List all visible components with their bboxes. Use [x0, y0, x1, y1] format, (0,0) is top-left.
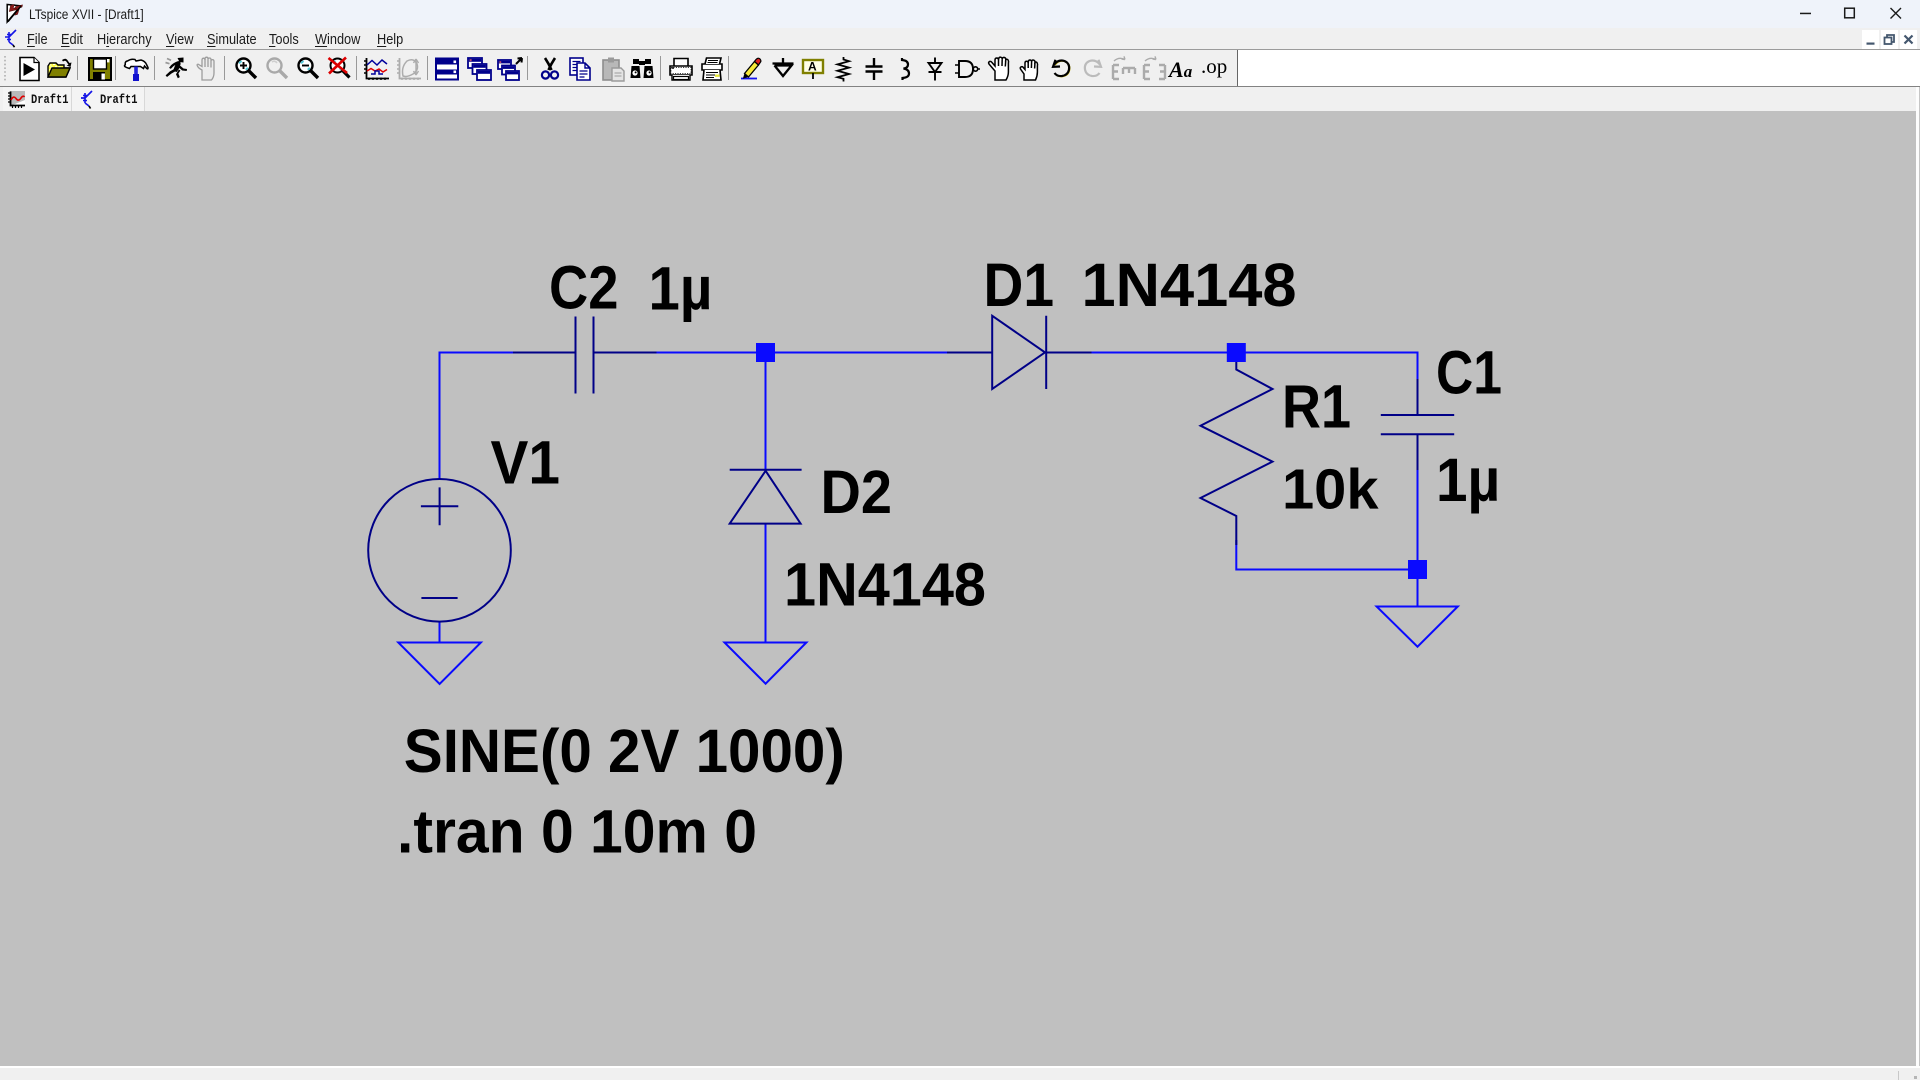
svg-text:10k: 10k [1282, 457, 1379, 521]
spice directive .tran 0 10m 0 [397, 798, 757, 866]
title bar [0, 0, 1920, 28]
LTspice app logo [5, 2, 27, 24]
svg-text:D2: D2 [821, 458, 893, 526]
svg-text:D1: D1 [984, 251, 1055, 319]
svg-text:A: A [808, 60, 817, 74]
label C2 [549, 254, 619, 322]
value 1µ (C2) [649, 255, 713, 323]
svg-text:SINE(0 2V 1000): SINE(0 2V 1000) [404, 717, 845, 785]
svg-text:1N4148: 1N4148 [784, 550, 986, 618]
toolbar [0, 50, 1238, 86]
value 1N4148 (D1) [1082, 251, 1297, 319]
wire junction A to D1 anode [766, 352, 993, 354]
label C1 [1436, 338, 1502, 406]
svg-text:1N4148: 1N4148 [1082, 251, 1297, 319]
label R1 [1282, 373, 1351, 441]
svg-text:1µ: 1µ [649, 255, 713, 323]
value 1µ (C1) [1436, 446, 1500, 514]
wire D1 cathode to junction B to C1 corner [1046, 353, 1418, 416]
value SINE(0 2V 1000) (V1) [404, 717, 845, 785]
window close button [1885, 0, 1906, 28]
window maximize button [1839, 0, 1860, 28]
svg-text:V1: V1 [491, 428, 561, 496]
svg-text:1µ: 1µ [1436, 446, 1500, 514]
svg-text:C2: C2 [549, 254, 619, 322]
wire V1 to ground [439, 622, 441, 643]
voltage source V1 [368, 479, 511, 622]
node junction C [1408, 560, 1427, 579]
tab bar [0, 87, 1920, 111]
value 10k (R1) [1282, 457, 1379, 521]
wire C2 to junction A [594, 352, 766, 354]
MDI minimize button [1862, 30, 1879, 49]
label D2 [821, 458, 893, 526]
value 1N4148 (D2) [784, 550, 986, 618]
wire D2 to ground [765, 524, 767, 643]
window minimize button [1795, 0, 1816, 28]
MDI restore button [1881, 30, 1898, 49]
MDI close button [1900, 30, 1917, 49]
wire junction A down to D2 [765, 353, 767, 471]
wire R1 bottom to junction C [1236, 540, 1417, 570]
diode D1 [947, 316, 1092, 389]
MDI child schematic icon [4, 29, 18, 48]
node junction B [1227, 343, 1246, 362]
capacitor C2 [513, 317, 657, 394]
node junction A [756, 343, 775, 362]
wire top rail from V1 to C2 [440, 353, 576, 480]
svg-text:C1: C1 [1436, 338, 1502, 406]
menu bar [0, 28, 1920, 49]
ground (V1) [398, 643, 481, 685]
label D1 [984, 251, 1055, 319]
wire C1 bottom to junction C to ground [1417, 434, 1419, 607]
diode D2 [730, 470, 802, 524]
svg-text:R1: R1 [1282, 373, 1351, 441]
label V1 [491, 428, 561, 496]
ground (C1/R1) [1377, 607, 1458, 647]
ground (D2) [725, 643, 807, 684]
status bar [0, 1068, 1920, 1080]
svg-text:.tran 0 10m 0: .tran 0 10m 0 [397, 798, 757, 866]
capacitor C1 [1381, 379, 1454, 470]
resistor R1 [1201, 355, 1273, 545]
